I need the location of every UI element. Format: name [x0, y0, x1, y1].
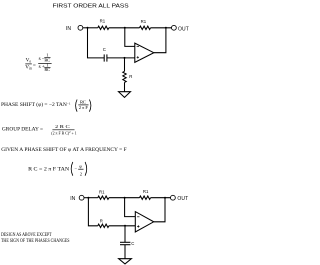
- svg-text:R1: R1: [143, 189, 149, 194]
- svg-text:R1: R1: [99, 190, 105, 195]
- svg-text:C: C: [103, 47, 106, 52]
- svg-text:−: −: [74, 166, 77, 171]
- svg-text:FIRST ORDER ALL PASS: FIRST ORDER ALL PASS: [53, 3, 129, 9]
- svg-text:IN: IN: [66, 26, 71, 32]
- svg-text:PHASE SHIFT (φ) = −2 TAN−1: PHASE SHIFT (φ) = −2 TAN−1: [1, 101, 71, 108]
- svg-text:OUT: OUT: [178, 26, 189, 32]
- svg-text:φ: φ: [79, 164, 82, 169]
- svg-text:GIVEN A PHASE SHIFT OF φ AT A: GIVEN A PHASE SHIFT OF φ AT A FREQUENCY …: [1, 147, 127, 153]
- svg-text:RC: RC: [80, 100, 86, 105]
- svg-text:IN: IN: [70, 196, 75, 202]
- svg-text:2 R C: 2 R C: [55, 124, 70, 129]
- svg-text:GROUP DELAY =: GROUP DELAY =: [2, 126, 43, 132]
- svg-text:2 π F: 2 π F: [79, 105, 89, 110]
- svg-text:=: =: [33, 63, 36, 69]
- svg-text:R: R: [100, 219, 103, 224]
- svg-text:R1: R1: [100, 18, 106, 23]
- svg-text:THE SIGN OF THE PHASES CHANGES: THE SIGN OF THE PHASES CHANGES: [1, 238, 70, 244]
- svg-text:C: C: [131, 241, 134, 246]
- svg-text:(2 π F R C)2 + 1: (2 π F R C)2 + 1: [51, 130, 77, 135]
- svg-text:R C = 2 π F TAN: R C = 2 π F TAN: [28, 166, 69, 172]
- svg-text:R1: R1: [141, 19, 147, 24]
- svg-text:OUT: OUT: [177, 196, 188, 202]
- svg-text:R: R: [129, 74, 132, 79]
